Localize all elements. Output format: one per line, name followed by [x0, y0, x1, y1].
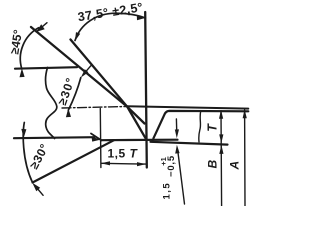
wire: top surface of left piece [15, 67, 77, 69]
wire: taper flank line (upper-left 40deg line through root junction) [31, 27, 145, 124]
label 1,5 +1/-0,5 rotated [161, 182, 172, 200]
wire: lower-left inner surface line [14, 137, 95, 138]
svg-text:1,5: 1,5 [161, 182, 172, 200]
arc upper >=30deg [68, 78, 81, 111]
wire: lower slanted flank line [33, 140, 115, 182]
label >=45deg [7, 28, 25, 55]
label lower >=30deg [27, 141, 52, 171]
svg-text:1,5 T: 1,5 T [108, 147, 139, 161]
dimension line 1,5 T [101, 162, 146, 165]
svg-text:B: B [205, 160, 219, 169]
label B [205, 160, 219, 169]
label 37,5 +-2,5 [77, 0, 144, 24]
wire: freehand break line of left piece [46, 68, 57, 139]
dimension line A vertical [244, 110, 246, 206]
wire: root face top line (line A) [101, 139, 178, 142]
label T right [206, 123, 220, 132]
node centerline (dash-dot) [62, 107, 127, 109]
wire: main vertical root line [145, 12, 147, 168]
label A [228, 161, 242, 171]
wire: left extension line of 1,5T dimension [99, 109, 102, 168]
wire: reference surface line to the right [127, 106, 249, 108]
label upper >=30deg [55, 75, 78, 107]
arc lower >=30deg [23, 123, 32, 183]
dimension line T / B vertical [220, 111, 223, 206]
wire: bottom line of right piece (line B) [151, 142, 228, 145]
wire: riser from chamfer foot to bottom line [152, 138, 153, 142]
arc 37,5deg [75, 13, 145, 40]
arc >=45deg [20, 28, 38, 69]
svg-text:A: A [228, 161, 242, 171]
wire: wavy extension line at x=200 [199, 112, 201, 142]
wire: chamfer of right piece with rounded corner and top surface [154, 111, 249, 138]
dimension 1,5 lower leader with up arrow [178, 151, 185, 204]
dimension 1,5 +1/-0,5 upper leader with down arrow [175, 119, 177, 130]
svg-text:−0,5: −0,5 [166, 155, 177, 177]
arrow on inner surface line pointing right [92, 137, 101, 142]
wire: small step joining inner surface to root line [91, 134, 102, 141]
wire: 37.5deg bevel flank line [71, 40, 146, 138]
